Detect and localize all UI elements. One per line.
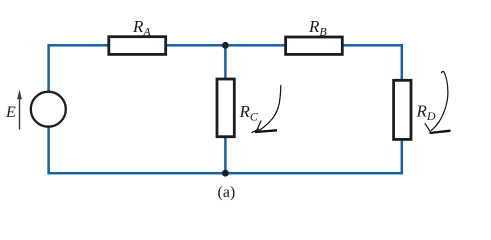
svg-text:RC: RC xyxy=(239,102,259,124)
node: bottom junction dot xyxy=(222,170,229,177)
resistor RC xyxy=(217,79,234,137)
svg-text:(a): (a) xyxy=(218,184,236,201)
resistor RD xyxy=(394,80,411,139)
current sketch arrow at RD xyxy=(425,71,451,133)
resistor RB xyxy=(286,37,343,54)
node: top junction dot xyxy=(222,42,229,49)
wire: middle branch xyxy=(224,45,227,173)
current sketch arrow at RC xyxy=(252,85,281,133)
source E (circle) xyxy=(31,92,66,127)
resistor RA xyxy=(109,37,166,55)
svg-text:E: E xyxy=(5,104,16,121)
E polarity arrow xyxy=(17,90,22,130)
svg-text:RB: RB xyxy=(308,17,327,39)
svg-text:RA: RA xyxy=(132,17,151,39)
wire: outer loop (top rail, right branch, bottom rail, left branch) xyxy=(49,45,402,173)
svg-text:RD: RD xyxy=(416,102,436,124)
